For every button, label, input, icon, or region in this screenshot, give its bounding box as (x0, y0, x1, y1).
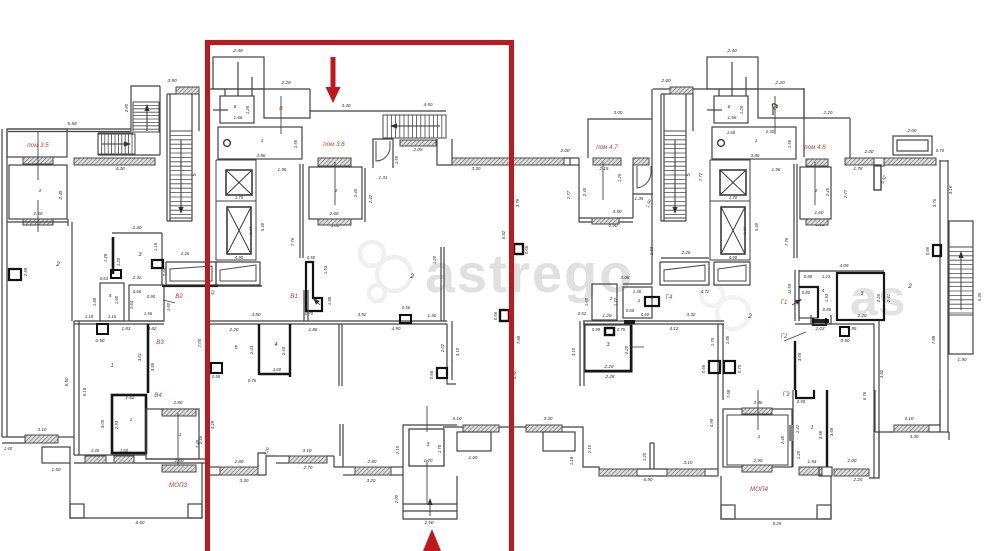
svg-text:2.77: 2.77 (843, 189, 848, 199)
elevator shaft upper (226, 170, 252, 195)
window hatch 3.90 above stair column (670, 87, 693, 94)
porch inner left (457, 432, 491, 451)
svg-text:2.45: 2.45 (780, 435, 785, 445)
elevator shaft outer wall (216, 160, 256, 260)
wall below pom3.5 room (7, 221, 68, 223)
stairwell enclosure walls (131, 86, 160, 131)
svg-text:0.50: 0.50 (96, 338, 105, 343)
duct on right outer wall (933, 245, 941, 256)
svg-text:2.41: 2.41 (886, 294, 891, 303)
svg-text:2.20: 2.20 (229, 327, 239, 332)
room 1.56 box (129, 285, 164, 321)
window hatch 2.25 (834, 469, 869, 476)
stair column flight hatch (170, 131, 192, 218)
svg-text:0.50: 0.50 (841, 338, 850, 343)
room 3 right thick (837, 273, 884, 320)
svg-text:Г4: Г4 (666, 294, 673, 301)
stairwell upper flight (133, 102, 159, 132)
svg-text:1.70: 1.70 (235, 195, 244, 200)
center right outline down (569, 158, 571, 165)
hall room with sink (712, 127, 796, 159)
svg-text:0.66: 0.66 (925, 246, 930, 255)
partition x441 (440, 247, 442, 321)
pillar 1.20 (649, 443, 651, 469)
duct G4 (645, 297, 659, 306)
svg-text:2.30: 2.30 (765, 129, 775, 134)
svg-text:3: 3 (861, 291, 864, 297)
svg-text:6: 6 (728, 104, 731, 110)
svg-text:2.00: 2.00 (907, 128, 917, 133)
pom 3.5 tick (37, 131, 39, 180)
sink circle (718, 140, 725, 147)
wall right of pom4.7 down (651, 194, 653, 284)
MOP4 left wall (717, 400, 719, 476)
svg-text:3.08: 3.08 (797, 352, 802, 361)
terrace right (721, 476, 831, 519)
svg-text:2.40: 2.40 (232, 48, 243, 54)
top box 2.40 walls (707, 57, 758, 89)
svg-text:1.41: 1.41 (795, 425, 800, 433)
room 3 top wall (112, 232, 162, 234)
duct at corner (437, 368, 447, 378)
svg-text:2.60: 2.60 (660, 78, 671, 84)
svg-text:3.86: 3.86 (751, 153, 760, 158)
svg-text:0.60: 0.60 (641, 312, 650, 317)
svg-text:2.40: 2.40 (726, 48, 737, 54)
duct B2 (152, 260, 163, 268)
svg-text:3.08: 3.08 (621, 275, 630, 280)
corner wall right of corridor (447, 324, 456, 384)
hall room with sink (218, 127, 302, 159)
duct on corridor wall (400, 315, 411, 323)
svg-text:2.43: 2.43 (281, 346, 286, 356)
svg-text:0.56: 0.56 (402, 305, 411, 310)
balcony shape under room4 (811, 315, 831, 324)
svg-text:1: 1 (758, 434, 761, 440)
svg-text:1.20: 1.20 (432, 255, 437, 264)
red highlight rectangle (208, 43, 512, 551)
svg-text:2: 2 (747, 313, 752, 320)
svg-text:0.68: 0.68 (133, 289, 142, 294)
svg-text:1.26: 1.26 (245, 105, 250, 114)
svg-text:1.60: 1.60 (273, 367, 282, 372)
svg-text:4.50: 4.50 (424, 102, 433, 107)
duct left of room5 (211, 363, 222, 373)
svg-text:6.18: 6.18 (82, 387, 87, 396)
window band 2.09 (400, 140, 436, 146)
red arrow top (331, 57, 336, 87)
bottom outline left part right section (637, 468, 667, 470)
svg-text:4.90: 4.90 (729, 255, 738, 260)
porch inner right (543, 432, 575, 451)
svg-text:1.18: 1.18 (85, 314, 94, 319)
svg-text:2.00: 2.00 (847, 458, 857, 463)
stair column arrow down (180, 140, 182, 207)
svg-text:3.20: 3.20 (367, 478, 376, 483)
right stair wing hatch (949, 247, 973, 315)
room 1 G4 (623, 287, 652, 318)
svg-text:1: 1 (130, 417, 133, 423)
svg-text:5.40: 5.40 (754, 222, 759, 231)
svg-text:2.10: 2.10 (395, 445, 400, 455)
svg-text:1.53: 1.53 (323, 265, 328, 274)
elevator shaft mid wall (710, 200, 750, 202)
svg-text:2.45: 2.45 (353, 188, 358, 198)
svg-text:2.80: 2.80 (173, 400, 183, 405)
svg-text:3.10: 3.10 (571, 347, 576, 356)
svg-text:1.56: 1.56 (293, 139, 298, 148)
right bottom wing window (894, 425, 929, 432)
room 2 small right (592, 284, 617, 320)
svg-text:0.88: 0.88 (804, 274, 813, 279)
elevator shaft lower (721, 207, 745, 254)
svg-text:2.25: 2.25 (853, 477, 863, 482)
svg-text:3.10: 3.10 (303, 448, 312, 453)
vestibule room walls (264, 89, 310, 118)
svg-text:1: 1 (110, 363, 113, 369)
top box center tick (237, 62, 239, 96)
room 6 ticks (224, 89, 226, 96)
stairwell upper flight arrow up (146, 111, 148, 131)
watermark partial right (701, 284, 749, 329)
svg-text:5.50: 5.50 (67, 121, 77, 127)
balcony trapezoid left (166, 262, 216, 285)
svg-text:3.99: 3.99 (150, 362, 155, 371)
svg-text:пом 4.8: пом 4.8 (804, 144, 826, 151)
svg-text:4: 4 (109, 293, 112, 299)
right outer wall (939, 160, 941, 432)
MOP4 tick (757, 390, 759, 430)
watermark gears (360, 242, 411, 301)
right stair arrow (960, 258, 962, 310)
svg-text:1.20: 1.20 (603, 313, 612, 318)
small duct box left (9, 269, 21, 280)
pom 4.7 window hatch (593, 158, 621, 165)
svg-text:2.10: 2.10 (587, 444, 592, 454)
pom 4.7 upper box (588, 119, 652, 158)
duct above room4 (111, 270, 121, 278)
porch bottom ticks (426, 490, 428, 504)
wall x365 (364, 168, 366, 222)
svg-text:1.31: 1.31 (379, 175, 388, 180)
vestibule room walls (758, 89, 804, 118)
svg-text:пом 3.6: пом 3.6 (323, 141, 345, 148)
pom 3.6 tick (334, 162, 336, 205)
svg-text:1.60: 1.60 (815, 210, 824, 215)
svg-text:4.72: 4.72 (701, 289, 710, 294)
stair D top wall (383, 110, 446, 112)
svg-text:0.50: 0.50 (307, 255, 316, 260)
svg-text:1.64: 1.64 (129, 300, 134, 309)
terrace window hatch 1 (85, 456, 106, 463)
right bottom wing outline (875, 431, 894, 433)
svg-text:3.68: 3.68 (829, 427, 834, 436)
svg-text:4.90: 4.90 (235, 255, 244, 260)
svg-text:6.60: 6.60 (136, 520, 145, 525)
svg-text:7.88: 7.88 (516, 335, 521, 344)
svg-text:2.45: 2.45 (825, 187, 830, 197)
svg-text:2.20: 2.20 (823, 110, 833, 115)
duct box on wall y321 (97, 324, 108, 334)
room 4 box (100, 283, 124, 321)
svg-text:1.20: 1.20 (642, 452, 647, 461)
door arc room 4.7 (633, 164, 653, 194)
duct room3 right section (605, 328, 614, 335)
notch up (258, 453, 266, 467)
svg-text:1: 1 (179, 432, 182, 438)
svg-text:2.80: 2.80 (234, 459, 244, 464)
svg-text:2.40: 2.40 (132, 225, 142, 230)
svg-text:1: 1 (261, 138, 264, 144)
svg-text:0.63: 0.63 (100, 276, 109, 281)
svg-text:2.70: 2.70 (303, 465, 313, 470)
MOP4 window hatch top (742, 408, 772, 414)
terrace window hatch 2 (114, 456, 134, 463)
svg-text:7.72: 7.72 (698, 172, 703, 181)
svg-text:1.96: 1.96 (772, 167, 781, 172)
pom 3.6 top window hatch (318, 158, 351, 166)
room 6 ticks (718, 89, 720, 96)
svg-text:1.60: 1.60 (120, 448, 129, 453)
window hatch 3.30r (526, 425, 562, 432)
svg-text:3.44: 3.44 (742, 226, 747, 235)
svg-text:2.00: 2.00 (394, 494, 399, 504)
terrace right corner squares (721, 505, 735, 519)
pom 4.7 room walls (579, 158, 633, 222)
svg-text:0.90: 0.90 (797, 399, 806, 404)
svg-text:4.82: 4.82 (879, 369, 884, 378)
half duct under room3 (813, 318, 826, 325)
svg-text:4.50: 4.50 (252, 312, 261, 317)
room 3 right section (585, 325, 632, 372)
svg-text:1.28: 1.28 (103, 253, 108, 262)
MOP4 inner box (727, 415, 788, 465)
MOP3 window hatch top (162, 409, 196, 416)
elevator shaft mid wall (216, 200, 256, 202)
svg-text:3: 3 (427, 442, 430, 448)
room 1 bottom window hatch (23, 219, 53, 225)
G1 arrow tick (792, 303, 796, 305)
svg-text:0.70: 0.70 (305, 311, 314, 316)
stair column walls (660, 94, 662, 221)
svg-text:3.76: 3.76 (515, 198, 520, 207)
svg-text:2.20: 2.20 (280, 80, 291, 86)
svg-text:1.83: 1.83 (122, 326, 131, 331)
svg-text:2.58: 2.58 (23, 267, 28, 277)
svg-text:0.76: 0.76 (248, 378, 257, 383)
svg-text:2.50: 2.50 (424, 520, 434, 525)
svg-text:11.59: 11.59 (787, 283, 792, 294)
svg-text:0.75: 0.75 (617, 327, 626, 332)
room 1 right of MOP4 (792, 390, 794, 467)
svg-text:7.76: 7.76 (784, 237, 789, 246)
svg-text:1.90: 1.90 (958, 357, 967, 362)
svg-text:2.28: 2.28 (605, 374, 615, 379)
terrace left outline (70, 463, 202, 518)
svg-text:0.66: 0.66 (493, 311, 498, 320)
svg-text:2.45: 2.45 (582, 187, 587, 197)
svg-text:Г3: Г3 (783, 391, 790, 398)
svg-text:2.09: 2.09 (413, 147, 423, 152)
outer wall left of room3 right section (579, 321, 581, 386)
svg-text:1.60: 1.60 (166, 302, 171, 311)
svg-text:2.20: 2.20 (857, 313, 867, 318)
corridor wall right of elevators (299, 164, 301, 258)
svg-text:2: 2 (409, 273, 414, 280)
svg-text:3.05: 3.05 (100, 419, 105, 428)
stair column walls (166, 94, 168, 221)
svg-text:1.25: 1.25 (617, 173, 622, 182)
room 3 thick box (409, 429, 444, 466)
arrow tick B1 (318, 303, 320, 305)
wall under trapezoids (162, 285, 218, 287)
svg-text:1.55: 1.55 (394, 155, 399, 164)
svg-text:1.16: 1.16 (108, 314, 117, 319)
wall from vestibule to stair D (310, 110, 383, 112)
svg-text:пом 4.7: пом 4.7 (596, 144, 618, 151)
window hatch 5.10 (463, 425, 499, 432)
door arc (376, 141, 390, 161)
svg-text:1.88: 1.88 (327, 296, 332, 305)
svg-text:1.85: 1.85 (725, 335, 730, 344)
svg-text:2.32: 2.32 (132, 275, 142, 280)
svg-text:3.44: 3.44 (248, 226, 253, 235)
svg-text:4.90: 4.90 (392, 326, 401, 331)
svg-text:1.78: 1.78 (437, 444, 442, 453)
room 3 right wall (161, 233, 163, 285)
terrace top wall with hatches (74, 454, 146, 456)
svg-text:Г2: Г2 (781, 333, 788, 340)
step outline near stair D (437, 139, 452, 165)
svg-text:6: 6 (234, 104, 237, 110)
left wing lower outer wall (73, 321, 75, 455)
svg-text:3.10: 3.10 (38, 427, 47, 432)
svg-text:5.40: 5.40 (260, 222, 265, 231)
svg-text:1.16: 1.16 (153, 242, 158, 251)
black box on red line upper (514, 244, 523, 254)
svg-text:0.85: 0.85 (823, 307, 832, 312)
left wing corridor window band 4.30 (74, 158, 155, 165)
svg-text:0.66: 0.66 (524, 245, 529, 254)
svg-text:2.20: 2.20 (604, 364, 614, 369)
thick wall x146 (147, 324, 150, 393)
svg-text:1.40: 1.40 (91, 448, 100, 453)
svg-text:7.45: 7.45 (195, 439, 200, 448)
svg-text:6.76: 6.76 (862, 391, 867, 400)
svg-text:4.29: 4.29 (210, 420, 215, 429)
wall seg C (343, 466, 355, 468)
svg-text:5.50: 5.50 (64, 377, 69, 386)
window hatch 2.80a (220, 467, 258, 475)
svg-text:7.88: 7.88 (931, 335, 936, 344)
svg-text:5.35: 5.35 (977, 292, 982, 301)
svg-text:4.09: 4.09 (840, 263, 849, 268)
room 6 walls (714, 96, 748, 123)
svg-text:1.18: 1.18 (569, 456, 574, 465)
svg-text:2.26: 2.26 (180, 251, 190, 256)
window hatch 1.50 right wing (592, 218, 619, 224)
svg-text:1.66: 1.66 (728, 115, 737, 120)
top wall right of room3 (443, 426, 463, 428)
porch under room 3 (403, 476, 457, 519)
svg-text:3.56: 3.56 (818, 430, 823, 439)
svg-text:3.30: 3.30 (240, 478, 249, 483)
svg-text:0.66: 0.66 (429, 370, 434, 379)
G2 thick wall (794, 341, 796, 390)
svg-text:7.76: 7.76 (290, 237, 295, 246)
svg-text:1.20: 1.20 (116, 257, 121, 266)
svg-text:2.93: 2.93 (114, 420, 119, 430)
door arc room (373, 139, 393, 168)
window hatch 3.10b (289, 456, 327, 463)
svg-text:МОП4: МОП4 (750, 486, 768, 493)
svg-text:1: 1 (39, 188, 42, 194)
pom 3.5 window hatch (23, 157, 53, 164)
svg-text:1: 1 (811, 425, 814, 431)
svg-text:1.60: 1.60 (584, 297, 589, 306)
svg-text:1: 1 (755, 138, 758, 144)
svg-text:В2: В2 (175, 293, 183, 300)
G3 duct (796, 390, 814, 398)
svg-text:0.66: 0.66 (701, 364, 706, 373)
svg-text:2.60: 2.60 (329, 211, 339, 216)
elevator shaft outer wall (710, 160, 750, 260)
entrance stair D hatch (383, 115, 446, 138)
porch left (42, 447, 70, 463)
pom 4.7 second window (633, 158, 649, 165)
svg-text:3.30: 3.30 (472, 166, 481, 171)
svg-text:2.03: 2.03 (815, 326, 825, 331)
svg-text:1.20: 1.20 (796, 450, 801, 459)
svg-text:0.99: 0.99 (592, 327, 601, 332)
svg-text:3.16: 3.16 (948, 185, 953, 194)
pom 4.8 room (800, 167, 831, 219)
room3 tick (631, 346, 644, 348)
svg-text:1.92: 1.92 (428, 313, 437, 318)
svg-text:6.90: 6.90 (644, 477, 653, 482)
svg-text:0.70: 0.70 (936, 148, 945, 153)
stair column top wall (653, 88, 701, 90)
stair column arrow down (674, 140, 676, 207)
svg-text:2.90: 2.90 (753, 458, 763, 463)
step down corner (334, 456, 343, 467)
wall right descend (562, 427, 599, 469)
svg-text:3.30: 3.30 (544, 416, 553, 421)
MOP3 room (146, 409, 199, 459)
door hook symbol (772, 104, 777, 115)
balcony trapezoid right 1 (660, 262, 709, 285)
svg-text:В1: В1 (290, 293, 298, 300)
svg-text:0.58: 0.58 (212, 374, 221, 379)
room 3 outer lines (443, 424, 457, 426)
svg-text:2.43: 2.43 (249, 345, 254, 355)
svg-text:2.02: 2.02 (440, 343, 445, 353)
pom 4.8 tick (814, 162, 816, 205)
MOP4 window hatch bottom (742, 465, 772, 472)
gray block (789, 425, 794, 441)
svg-text:0.80: 0.80 (802, 290, 811, 295)
svg-text:2.42: 2.42 (368, 194, 373, 204)
svg-text:1.75: 1.75 (710, 337, 715, 346)
svg-text:0.70: 0.70 (737, 364, 742, 373)
svg-text:3.40: 3.40 (342, 103, 351, 108)
svg-text:1.60: 1.60 (114, 295, 119, 304)
pillar right wing (874, 165, 881, 190)
wall under top box (207, 88, 310, 90)
svg-text:МОП3: МОП3 (169, 482, 187, 489)
svg-text:1.88: 1.88 (92, 297, 97, 306)
wall y321 left wing (74, 320, 164, 322)
